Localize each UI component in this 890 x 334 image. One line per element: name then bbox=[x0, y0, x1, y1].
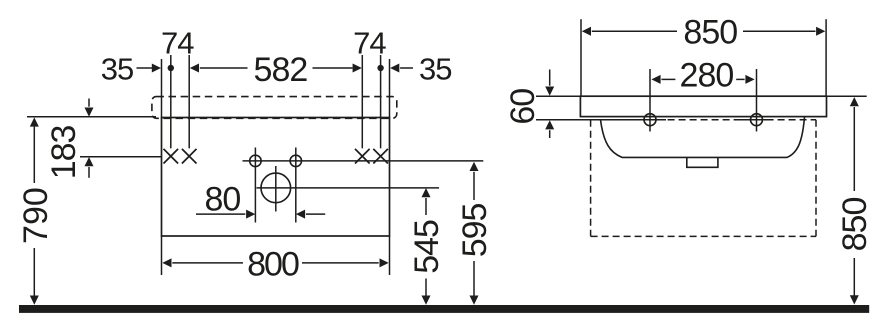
svg-text:595: 595 bbox=[456, 203, 494, 257]
svg-text:582: 582 bbox=[254, 51, 308, 89]
svg-text:850: 850 bbox=[683, 14, 737, 52]
svg-text:790: 790 bbox=[17, 187, 55, 244]
svg-text:80: 80 bbox=[204, 181, 240, 219]
svg-text:183: 183 bbox=[45, 125, 83, 179]
svg-text:74: 74 bbox=[353, 25, 386, 60]
svg-text:545: 545 bbox=[408, 220, 446, 274]
svg-text:35: 35 bbox=[101, 52, 133, 87]
svg-text:800: 800 bbox=[247, 245, 299, 283]
svg-text:35: 35 bbox=[419, 52, 451, 87]
svg-text:850: 850 bbox=[836, 198, 874, 252]
svg-text:74: 74 bbox=[161, 25, 194, 60]
svg-text:280: 280 bbox=[680, 57, 734, 95]
